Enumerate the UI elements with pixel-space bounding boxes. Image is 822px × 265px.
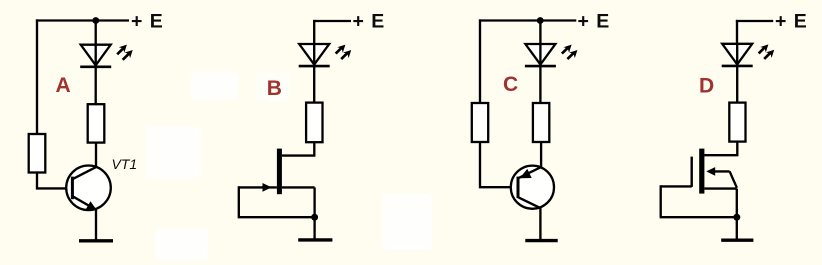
junction node +E C bbox=[537, 17, 544, 24]
svg-text:+ E: + E bbox=[775, 11, 808, 33]
wire anode A bbox=[95, 19, 97, 45]
wire gate loop B bbox=[238, 186, 315, 217]
wire +E rail A (top horizontal) bbox=[36, 19, 129, 21]
resistor (ballast, circuit C) bbox=[533, 103, 549, 142]
junction node source B bbox=[311, 214, 318, 221]
ground (circuit A) bbox=[79, 239, 113, 242]
wire anode C bbox=[539, 19, 541, 44]
ground (circuit C) bbox=[525, 239, 557, 242]
wire +E rail B bbox=[313, 20, 351, 22]
wire LED-to-resistor C bbox=[539, 66, 541, 103]
resistor (base, circuit C) bbox=[472, 103, 488, 142]
resistor (ballast, circuit B) bbox=[306, 103, 322, 143]
transistor (JFET, circuit B) bbox=[239, 149, 315, 195]
wire base C bbox=[479, 142, 518, 188]
wire left rail A bbox=[36, 19, 38, 134]
wire gate D bbox=[661, 185, 692, 187]
wire LED-to-resistor B bbox=[313, 66, 315, 103]
wire drain B bbox=[282, 142, 316, 155]
svg-text:+ E: + E bbox=[131, 11, 164, 33]
wire base A bbox=[36, 173, 73, 190]
LED (circuit B) bbox=[299, 44, 352, 66]
svg-text:D: D bbox=[699, 75, 714, 98]
ground (circuit B) bbox=[298, 238, 332, 241]
wire left rail C bbox=[479, 19, 481, 103]
transistor (PNP, circuit C) bbox=[511, 166, 554, 209]
transistor (MOSFET, circuit D) bbox=[692, 149, 737, 194]
wire +E rail C bbox=[479, 19, 576, 21]
transistor VT1 (NPN, circuit A) bbox=[66, 166, 111, 211]
wire emitter A bbox=[95, 209, 97, 241]
wire collector A bbox=[95, 143, 97, 167]
wire gate loop D bbox=[660, 185, 737, 217]
LED (circuit D) bbox=[722, 44, 775, 66]
svg-text:VT1: VT1 bbox=[112, 156, 138, 172]
ground (circuit D) bbox=[721, 238, 753, 241]
junction node +E A bbox=[92, 17, 99, 24]
svg-text:A: A bbox=[56, 74, 71, 97]
junction node source D bbox=[733, 214, 740, 221]
svg-text:C: C bbox=[503, 73, 518, 96]
svg-text:+ E: + E bbox=[353, 11, 386, 33]
resistor (ballast, circuit A) bbox=[88, 104, 105, 142]
LED HL1 (circuit A) bbox=[80, 45, 133, 67]
LED (circuit C) bbox=[525, 44, 578, 66]
wire anode B bbox=[313, 20, 315, 44]
wire drain D bbox=[704, 142, 738, 156]
wire anode D bbox=[736, 20, 738, 44]
wire source D bbox=[736, 189, 738, 240]
wire source B bbox=[313, 187, 315, 239]
resistor (ballast, circuit D) bbox=[729, 103, 745, 142]
wire +E rail D bbox=[736, 20, 773, 22]
svg-text:B: B bbox=[267, 77, 282, 100]
resistor (base, circuit A) bbox=[29, 134, 46, 173]
wire collector C bbox=[539, 208, 541, 241]
wire LED-to-resistor D bbox=[736, 66, 738, 103]
svg-text:+ E: + E bbox=[578, 11, 611, 33]
wire LED-to-resistor A bbox=[95, 67, 97, 105]
wire emitter C bbox=[540, 142, 542, 168]
